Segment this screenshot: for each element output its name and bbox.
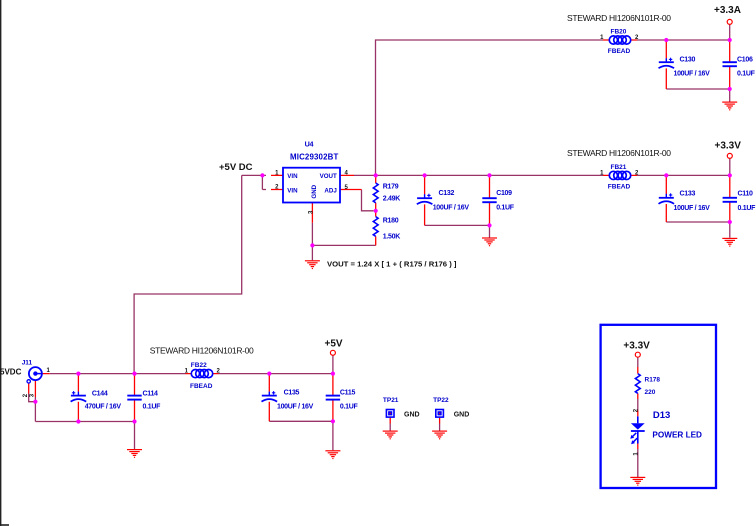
svg-text:100UF / 16V: 100UF / 16V — [433, 205, 470, 212]
svg-text:2.49K: 2.49K — [383, 196, 400, 203]
svg-text:100UF / 16V: 100UF / 16V — [277, 403, 314, 410]
svg-text:C132: C132 — [439, 190, 455, 197]
svg-text:0.1UF: 0.1UF — [340, 403, 359, 410]
svg-text:C115: C115 — [340, 389, 356, 396]
svg-text:U4: U4 — [305, 139, 314, 148]
svg-text:TP22: TP22 — [433, 397, 449, 404]
svg-text:C110: C110 — [738, 190, 754, 197]
svg-text:GND: GND — [311, 184, 318, 198]
svg-text:+3.3V: +3.3V — [715, 141, 742, 152]
svg-text:+5V: +5V — [325, 339, 343, 350]
svg-text:FB20: FB20 — [611, 29, 627, 36]
svg-text:0.1UF: 0.1UF — [738, 205, 756, 212]
svg-text:C106: C106 — [737, 57, 753, 64]
svg-text:TP21: TP21 — [383, 397, 399, 404]
svg-text:R180: R180 — [383, 218, 399, 225]
svg-text:STEWARD HI1206N101R-00: STEWARD HI1206N101R-00 — [567, 13, 671, 23]
svg-text:+3.3A: +3.3A — [714, 5, 741, 16]
svg-text:VIN: VIN — [287, 173, 298, 180]
svg-text:VOUT: VOUT — [320, 173, 337, 180]
svg-text:C109: C109 — [496, 190, 512, 197]
svg-text:FBEAD: FBEAD — [608, 183, 631, 190]
svg-text:3: 3 — [309, 210, 315, 214]
svg-text:POWER LED: POWER LED — [652, 431, 702, 440]
svg-text:R179: R179 — [383, 183, 399, 190]
svg-text:J11: J11 — [22, 360, 33, 367]
svg-text:0.1UF: 0.1UF — [496, 205, 515, 212]
svg-text:1.50K: 1.50K — [383, 234, 400, 241]
svg-text:VIN: VIN — [287, 188, 298, 195]
svg-text:2: 2 — [634, 408, 640, 412]
svg-text:ADJ: ADJ — [324, 188, 337, 195]
svg-text:GND: GND — [454, 412, 470, 419]
svg-text:0.1UF: 0.1UF — [143, 404, 162, 411]
svg-text:GND: GND — [404, 412, 420, 419]
svg-text:+3.3V: +3.3V — [623, 340, 650, 351]
svg-text:FB21: FB21 — [611, 164, 627, 171]
svg-text:C114: C114 — [143, 390, 159, 397]
svg-text:STEWARD HI1206N101R-00: STEWARD HI1206N101R-00 — [150, 346, 254, 356]
svg-text:C133: C133 — [680, 190, 696, 197]
svg-text:3: 3 — [30, 393, 36, 397]
svg-text:FB22: FB22 — [191, 362, 207, 369]
svg-text:100UF / 16V: 100UF / 16V — [674, 70, 711, 77]
svg-text:+5V DC: +5V DC — [219, 162, 253, 173]
svg-text:100UF / 16V: 100UF / 16V — [674, 205, 711, 212]
svg-text:C144: C144 — [92, 390, 108, 397]
svg-text:470UF / 16V: 470UF / 16V — [85, 404, 122, 411]
svg-text:STEWARD HI1206N101R-00: STEWARD HI1206N101R-00 — [567, 148, 671, 158]
svg-text:220: 220 — [645, 389, 656, 396]
svg-text:1: 1 — [634, 452, 640, 456]
svg-text:MIC29302BT: MIC29302BT — [290, 153, 338, 162]
svg-text:FBEAD: FBEAD — [190, 383, 213, 390]
svg-text:VOUT = 1.24 X [ 1 + ( R175 / R: VOUT = 1.24 X [ 1 + ( R175 / R176 ) ] — [327, 260, 457, 269]
svg-text:C135: C135 — [284, 389, 300, 396]
svg-text:C130: C130 — [680, 57, 696, 64]
svg-text:D13: D13 — [653, 410, 670, 421]
svg-text:FBEAD: FBEAD — [608, 48, 631, 55]
svg-text:5VDC: 5VDC — [0, 368, 22, 377]
svg-text:0.1UF: 0.1UF — [737, 70, 756, 77]
svg-text:R178: R178 — [645, 377, 661, 384]
